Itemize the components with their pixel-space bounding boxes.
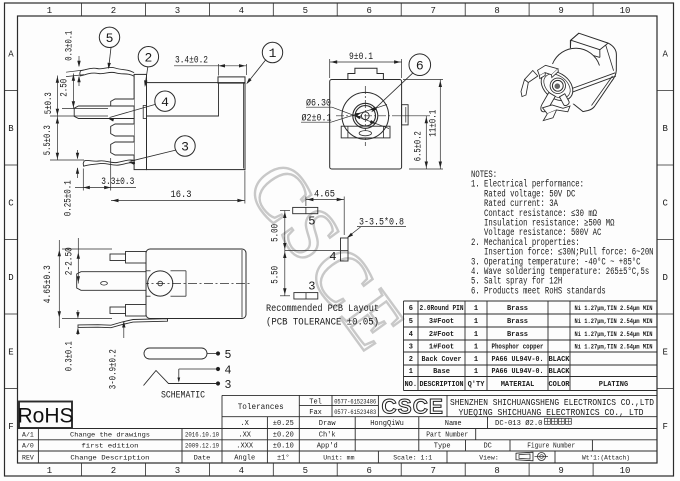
- svg-text:1: 1: [269, 46, 277, 61]
- svg-text:Tolerances: Tolerances: [238, 403, 284, 412]
- svg-text:A: A: [8, 50, 14, 60]
- svg-text:E: E: [8, 347, 13, 357]
- svg-text:NO.: NO.: [404, 381, 417, 389]
- pcb layout caption: [266, 303, 379, 329]
- svg-text:5: 5: [308, 215, 315, 229]
- svg-text:1: 1: [474, 305, 478, 313]
- svg-text:Scale: 1:1: Scale: 1:1: [393, 454, 432, 461]
- dimension 2-2.50: [65, 238, 80, 284]
- svg-text:0577-61523486: 0577-61523486: [334, 399, 376, 406]
- svg-text:D: D: [8, 273, 13, 283]
- svg-text:RoHS: RoHS: [17, 405, 73, 428]
- svg-text:6: 6: [366, 466, 371, 476]
- title block grid: [18, 395, 658, 463]
- svg-text:4: 4: [329, 250, 336, 264]
- svg-text:View:: View:: [479, 454, 499, 461]
- svg-text:4.65: 4.65: [314, 188, 335, 200]
- notes text: [471, 169, 654, 297]
- svg-text:6.5±0.2: 6.5±0.2: [414, 131, 425, 161]
- diameter leader Ø2±0.1: [301, 105, 387, 125]
- svg-text:1: 1: [474, 343, 478, 351]
- RoHS mark: [17, 402, 73, 429]
- svg-text:Name: Name: [445, 420, 462, 428]
- dimension 2.50: [60, 74, 109, 109]
- svg-text:Ni 1.27µm,TIN 2.54µm MIN: Ni 1.27µm,TIN 2.54µm MIN: [575, 343, 653, 350]
- svg-text:Recommended PCB Layout: Recommended PCB Layout: [266, 303, 379, 315]
- svg-text:8: 8: [494, 466, 499, 476]
- side view pin 3 bent tab: [83, 160, 135, 166]
- svg-text:2009.12.19: 2009.12.19: [185, 443, 219, 451]
- parts table: [404, 301, 658, 391]
- svg-text:3.3±0.3: 3.3±0.3: [101, 176, 134, 188]
- bottom view top foot: [110, 252, 146, 264]
- svg-text:BLACK: BLACK: [548, 356, 570, 364]
- svg-text:1: 1: [409, 368, 413, 376]
- watermark CSCE: [231, 146, 426, 369]
- svg-text:4: 4: [161, 95, 169, 110]
- svg-text:Date: Date: [194, 454, 211, 462]
- svg-text:5.50: 5.50: [271, 266, 282, 284]
- svg-text:Ni 1.27µm,TIN 2.54µm MIN: Ni 1.27µm,TIN 2.54µm MIN: [575, 331, 653, 338]
- svg-text:Ni 1.27µm,TIN 2.54µm MIN: Ni 1.27µm,TIN 2.54µm MIN: [575, 318, 653, 325]
- svg-text:1: 1: [47, 6, 52, 16]
- svg-text:CSCE: CSCE: [382, 396, 444, 419]
- bottom view barrel circle: [146, 271, 186, 296]
- isometric view round pin: [541, 93, 555, 112]
- svg-text:2: 2: [144, 50, 152, 65]
- isometric view side pin: [560, 94, 570, 106]
- dimension 0.3±0.1: [65, 31, 85, 86]
- svg-text:3: 3: [175, 466, 180, 476]
- svg-text:±0.10: ±0.10: [273, 443, 294, 451]
- svg-text:3: 3: [225, 379, 232, 392]
- svg-text:±0.20: ±0.20: [273, 431, 294, 439]
- svg-text:3: 3: [308, 280, 315, 294]
- svg-text:5±0.3: 5±0.3: [44, 92, 55, 114]
- svg-text:0.3±0.1: 0.3±0.1: [64, 341, 75, 371]
- dimension 4.65±0.3: [43, 240, 146, 328]
- svg-text:SCHEMATIC: SCHEMATIC: [161, 390, 205, 402]
- dimension 0.25±0.1: [64, 150, 80, 216]
- svg-text:REV: REV: [22, 454, 34, 461]
- pcb pad 5: [293, 207, 318, 228]
- front view bottom notch: [341, 126, 390, 138]
- svg-text:F: F: [8, 422, 13, 432]
- balloon 4: [107, 91, 175, 122]
- balloon 2: [138, 47, 158, 88]
- name field CJK glyph blocks: [545, 418, 572, 424]
- isometric view pin 5 tab: [538, 65, 559, 78]
- svg-text:first edition: first edition: [81, 443, 138, 451]
- svg-text:Ch'k: Ch'k: [319, 431, 336, 439]
- side view body: [134, 74, 245, 169]
- svg-text:2-2.50: 2-2.50: [65, 247, 76, 275]
- svg-text:3: 3: [181, 140, 189, 155]
- svg-text:5: 5: [303, 6, 308, 16]
- svg-text:PLATING: PLATING: [599, 381, 628, 389]
- svg-text:2: 2: [111, 466, 116, 476]
- balloon 1: [246, 42, 282, 84]
- svg-text:Back Cover: Back Cover: [422, 356, 462, 364]
- dimension 9±0.1: [330, 51, 402, 78]
- svg-text:Figure Number: Figure Number: [527, 443, 575, 451]
- svg-text:C: C: [8, 198, 14, 208]
- svg-text:1: 1: [474, 368, 478, 376]
- pcb pad 4: [329, 238, 348, 264]
- dimension 6.5±0.2: [395, 116, 430, 169]
- dimension 11±0.1: [403, 80, 443, 170]
- schematic pin 5 barrel: [144, 348, 232, 362]
- svg-text:Type: Type: [434, 443, 451, 451]
- svg-text:0.3±0.1: 0.3±0.1: [65, 31, 76, 61]
- svg-text:Draw: Draw: [319, 420, 337, 428]
- svg-text:1#Foot: 1#Foot: [429, 343, 454, 351]
- svg-text:Brass: Brass: [507, 318, 528, 326]
- svg-text:B: B: [662, 124, 668, 134]
- isometric view back cover: [570, 33, 616, 111]
- svg-text:PA66 UL94V-0.: PA66 UL94V-0.: [492, 356, 544, 364]
- bottom view pin 4 flat pin: [77, 272, 146, 291]
- svg-text:Part Number: Part Number: [426, 431, 468, 439]
- front view body: [330, 68, 408, 169]
- svg-text:3: 3: [175, 6, 180, 16]
- schematic pin 3 spring: [144, 371, 232, 392]
- svg-text:.XX: .XX: [238, 431, 251, 439]
- svg-text:5: 5: [225, 349, 232, 362]
- dimension 3.3±0.3: [75, 158, 136, 191]
- side view pin 4 big pin: [74, 106, 134, 119]
- svg-text:E: E: [662, 347, 667, 357]
- side view prong 2: [111, 124, 134, 136]
- svg-text:Base: Base: [433, 368, 450, 376]
- svg-text:1: 1: [474, 318, 478, 326]
- bottom view bottom foot: [110, 305, 146, 317]
- svg-text:2.0Round PIN: 2.0Round PIN: [420, 305, 464, 313]
- svg-text:4: 4: [225, 364, 232, 377]
- svg-text:Ni 1.27µm,TIN 2.54µm MIN: Ni 1.27µm,TIN 2.54µm MIN: [575, 305, 653, 312]
- bottom view bent tab: [78, 319, 168, 328]
- bottom view body: [108, 249, 252, 319]
- svg-text:Fax: Fax: [309, 409, 322, 417]
- svg-text:6: 6: [409, 305, 413, 313]
- svg-text:BLACK: BLACK: [548, 368, 570, 376]
- svg-text:8: 8: [494, 6, 499, 16]
- svg-text:11±0.1: 11±0.1: [428, 110, 439, 137]
- svg-text:6: 6: [366, 6, 371, 16]
- svg-text:9±0.1: 9±0.1: [349, 51, 373, 63]
- svg-text:4.65±0.3: 4.65±0.3: [43, 265, 54, 303]
- svg-text:6. Products meet RoHS standard: 6. Products meet RoHS standards: [471, 285, 606, 296]
- svg-text:7: 7: [430, 466, 435, 476]
- svg-text:1: 1: [474, 331, 478, 339]
- dimension 16.3: [111, 171, 245, 204]
- svg-text:A/1: A/1: [22, 431, 34, 438]
- svg-text:(PCB TOLERANCE ±0.05): (PCB TOLERANCE ±0.05): [266, 317, 379, 329]
- svg-text:Change the drawings: Change the drawings: [70, 431, 150, 439]
- svg-text:A: A: [662, 50, 668, 60]
- svg-text:1: 1: [474, 356, 478, 364]
- schematic pin 4 contact: [177, 364, 231, 382]
- svg-text:6: 6: [416, 58, 424, 73]
- revision table text: [22, 431, 219, 462]
- svg-text:3.4±0.2: 3.4±0.2: [175, 55, 208, 67]
- svg-text:5.00: 5.00: [271, 224, 282, 242]
- svg-text:A/0: A/0: [22, 443, 34, 450]
- svg-text:C: C: [662, 198, 668, 208]
- svg-text:Wt'1:(Attach): Wt'1:(Attach): [582, 454, 630, 461]
- svg-text:5.5±0.3: 5.5±0.3: [43, 125, 54, 155]
- dimension 5.00 / 5.50 pcb: [271, 211, 341, 296]
- svg-text:5: 5: [409, 318, 413, 326]
- svg-text:Change Description: Change Description: [70, 454, 149, 462]
- svg-text:Angle: Angle: [234, 454, 255, 462]
- svg-text:Q'TY: Q'TY: [468, 381, 486, 389]
- leader 3-3.5*0.8: [347, 216, 406, 238]
- isometric view pin 3 tab: [543, 105, 571, 121]
- title block text: [234, 399, 630, 463]
- svg-text:16.3: 16.3: [171, 189, 192, 201]
- svg-text:App'd: App'd: [317, 443, 338, 451]
- svg-text:4: 4: [409, 331, 413, 339]
- svg-text:B: B: [8, 124, 14, 134]
- svg-text:3-0.9±0.2: 3-0.9±0.2: [109, 349, 120, 389]
- dimension 4.65 pcb: [306, 188, 344, 235]
- side view prong 3: [111, 142, 134, 155]
- balloon 6: [371, 54, 430, 112]
- svg-text:Brass: Brass: [507, 331, 528, 339]
- balloon 3: [128, 136, 195, 165]
- isometric view pin 4 bracket: [521, 71, 538, 97]
- projection symbol: [516, 452, 548, 461]
- svg-text:±1°: ±1°: [277, 453, 290, 462]
- svg-text:4: 4: [239, 6, 244, 16]
- svg-text:4: 4: [239, 466, 244, 476]
- svg-text:Brass: Brass: [507, 305, 528, 313]
- svg-text:5: 5: [106, 31, 114, 46]
- svg-text:2.50: 2.50: [60, 79, 71, 97]
- svg-text:0577-61523483: 0577-61523483: [334, 409, 376, 416]
- svg-text:0.25±0.1: 0.25±0.1: [64, 180, 75, 216]
- isometric view barrel: [536, 48, 616, 107]
- diameter leader Ø6.30: [306, 97, 389, 128]
- svg-text:2016.10.10: 2016.10.10: [185, 431, 219, 439]
- dimension 3-0.9±0.2: [109, 321, 126, 389]
- svg-text:Unit: mm: Unit: mm: [323, 454, 354, 461]
- svg-text:MATERIAL: MATERIAL: [501, 381, 535, 389]
- svg-text:10: 10: [620, 466, 631, 476]
- dimension 3.4±0.2: [174, 55, 247, 76]
- svg-text:.X: .X: [240, 420, 249, 428]
- dimension 5±0.3: [44, 76, 108, 117]
- svg-text:Tel: Tel: [309, 399, 322, 407]
- svg-text:2: 2: [409, 356, 413, 364]
- svg-text:9: 9: [558, 6, 563, 16]
- svg-text:3: 3: [409, 343, 413, 351]
- dimension 0.3±0.1 bottom: [64, 310, 79, 371]
- side view prong 1: [111, 99, 134, 110]
- dimension 5.5±0.3: [43, 116, 84, 160]
- svg-text:COLOR: COLOR: [548, 381, 570, 389]
- company name lines: [450, 397, 654, 418]
- svg-text:D: D: [662, 273, 667, 283]
- pcb pad 3: [294, 280, 318, 300]
- balloon 5: [99, 27, 119, 69]
- svg-text:DC-013 Ø2.0: DC-013 Ø2.0: [495, 419, 542, 428]
- svg-text:PA66 UL94V-0.: PA66 UL94V-0.: [492, 368, 544, 376]
- svg-text:7: 7: [430, 6, 435, 16]
- svg-text:3#Foot: 3#Foot: [429, 318, 454, 326]
- svg-text:1: 1: [47, 466, 52, 476]
- svg-text:±0.25: ±0.25: [273, 420, 294, 428]
- svg-text:5: 5: [303, 466, 308, 476]
- svg-text:2: 2: [111, 6, 116, 16]
- svg-text:2#Foot: 2#Foot: [429, 331, 454, 339]
- svg-text:YUEQING SHICHUANG ELECTRONICS: YUEQING SHICHUANG ELECTRONICS CO., LTD: [459, 407, 644, 418]
- svg-text:HongQiWu: HongQiWu: [370, 420, 404, 428]
- svg-text:.XXX: .XXX: [236, 443, 254, 451]
- svg-text:DC: DC: [483, 443, 491, 451]
- front view circles: [336, 86, 395, 146]
- side view pin 5 bent tab: [80, 67, 134, 76]
- svg-text:DESCRIPTION: DESCRIPTION: [420, 381, 464, 389]
- svg-text:F: F: [662, 422, 667, 432]
- svg-text:Phosphor copper: Phosphor copper: [492, 343, 544, 351]
- svg-text:10: 10: [620, 6, 631, 16]
- svg-text:9: 9: [558, 466, 563, 476]
